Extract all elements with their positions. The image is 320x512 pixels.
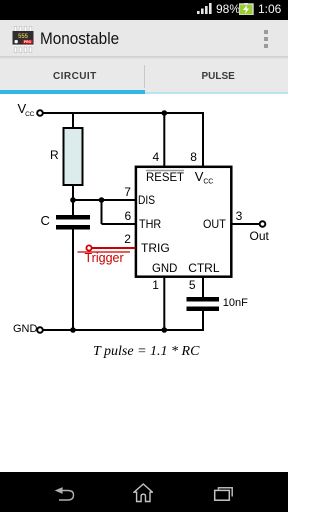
svg-text:PRO: PRO	[24, 40, 32, 44]
